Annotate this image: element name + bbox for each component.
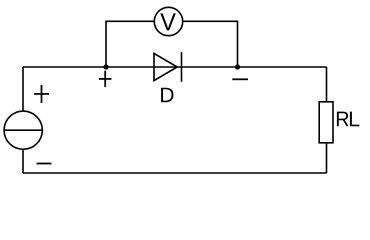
plus sign at source positive terminal bbox=[34, 93, 49, 95]
wire left vertical lower (source - to bottom wire) bbox=[22, 149, 24, 173]
node A junction dot left bbox=[103, 64, 108, 69]
wire left vertical upper (source + to main wire) bbox=[22, 67, 24, 111]
voltmeter V1 circle bbox=[154, 7, 182, 35]
resistor RL label bbox=[337, 112, 359, 127]
diode D label bbox=[161, 88, 173, 103]
wire right vertical upper (main wire to RL top) bbox=[326, 67, 328, 102]
resistor RL box bbox=[319, 102, 333, 143]
source I1 circle bbox=[4, 111, 42, 149]
plus sign at node A bbox=[99, 78, 111, 80]
wire bottom horizontal bbox=[23, 172, 327, 174]
node B junction dot right bbox=[235, 64, 240, 69]
minus sign at node B bbox=[232, 78, 248, 80]
wire right vertical lower (RL bottom to bottom wire) bbox=[326, 143, 328, 173]
diode D cathode bar bbox=[181, 52, 183, 82]
voltmeter V1 label V bbox=[160, 13, 176, 30]
minus sign at source negative terminal bbox=[37, 163, 52, 165]
source I1 horizontal bar bbox=[4, 129, 42, 131]
wire voltmeter branch left bbox=[106, 21, 154, 67]
wire voltmeter branch right bbox=[183, 21, 238, 67]
diode D triangle (anode) bbox=[154, 53, 177, 80]
wire main horizontal top (node + to node -) bbox=[23, 66, 327, 68]
